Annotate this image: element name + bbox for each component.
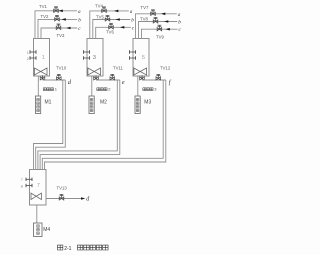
svg-text:7: 7 <box>37 183 40 189</box>
svg-text:b: b <box>78 17 81 23</box>
caption 图2-1 工艺流程图 <box>58 245 63 250</box>
svg-text:TV8: TV8 <box>140 16 148 21</box>
wire outlet run unit 3 <box>142 79 166 81</box>
svg-text:b: b <box>131 18 134 24</box>
valve TV12 <box>156 74 161 80</box>
svg-text:TV11: TV11 <box>113 66 124 71</box>
motor box unit 2 <box>89 96 94 114</box>
stirrer agitator tank 2 <box>88 68 101 75</box>
wire inlet pipe a unit 3 <box>136 14 177 39</box>
valve TV4 <box>102 7 107 13</box>
valve TV13 <box>59 195 64 201</box>
svg-text:a: a <box>178 12 181 18</box>
svg-text:TV9: TV9 <box>156 35 164 40</box>
tank 4 mix <box>30 170 47 206</box>
valve TV2 <box>55 15 60 21</box>
tank 1 <box>34 39 50 77</box>
wire drain pipe outer unit 2 <box>40 80 120 170</box>
wire outlet drop unit 2 <box>95 76 97 80</box>
svg-text:TV1: TV1 <box>39 4 47 9</box>
hand valve unit 1 <box>40 75 45 80</box>
wire outlet drop unit 3 <box>141 76 143 80</box>
svg-text:M3: M3 <box>144 99 151 105</box>
flow arrow into TV9 <box>166 28 170 31</box>
flow arrow into TV2 <box>62 18 66 21</box>
level sensor stub y52.0 tank 1 <box>30 51 36 53</box>
valve TV5 <box>105 16 110 22</box>
flow arrow into TV4 <box>114 10 118 13</box>
svg-text:TV6: TV6 <box>106 29 114 34</box>
svg-text:2-1: 2-1 <box>64 246 71 252</box>
svg-text:8: 8 <box>21 184 23 188</box>
wire inlet pipe a unit 1 <box>35 11 77 39</box>
valve TV3 <box>56 24 61 30</box>
valve TV6 <box>109 23 114 29</box>
motor box unit 4 <box>34 223 43 237</box>
motor box vertical text unit 4 <box>37 225 40 235</box>
valve TV1 <box>54 7 59 13</box>
wire motor shaft unit 3 <box>137 76 139 96</box>
valve TV8 <box>153 18 158 24</box>
wire inlet pipe c unit 1 <box>41 28 77 39</box>
wire outlet drop unit 1 <box>42 76 44 80</box>
label 电炉丝1 <box>43 88 53 91</box>
svg-text:7: 7 <box>21 178 23 182</box>
wire drain pipe inner unit 3 <box>42 80 163 170</box>
wire motor shaft unit 2 <box>91 76 93 96</box>
svg-text:1: 1 <box>42 55 45 61</box>
level sensor stub y179.3 tank 4 <box>26 178 32 180</box>
valve TV11 <box>110 74 115 80</box>
label 电炉丝3 <box>143 88 153 91</box>
svg-text:TV4: TV4 <box>95 3 103 8</box>
wire inlet pipe a unit 2 <box>90 11 129 39</box>
svg-text:TV12: TV12 <box>160 66 171 71</box>
flow arrow into TV8 <box>164 20 168 23</box>
valve TV9 <box>157 25 162 31</box>
wire inlet pipe b unit 1 <box>38 19 77 38</box>
label 电炉丝2 <box>97 88 107 91</box>
level sensor stub y58.0 tank 3 <box>130 57 136 59</box>
wire motor shaft unit 4 <box>36 205 38 223</box>
flow arrow into TV1 <box>59 10 63 13</box>
tank 2 <box>87 39 103 77</box>
svg-text:5: 5 <box>142 55 145 61</box>
level sensor stub y185.5 tank 4 <box>26 185 32 187</box>
level sensor stub y58.0 tank 2 <box>84 57 90 59</box>
tank 3 <box>133 39 149 77</box>
svg-text:b: b <box>178 20 181 26</box>
hand valve unit 3 <box>140 75 145 80</box>
svg-text:e: e <box>122 79 125 86</box>
svg-text:TV2: TV2 <box>41 14 49 19</box>
svg-text:3: 3 <box>93 55 96 61</box>
wire inlet pipe b unit 2 <box>93 20 130 39</box>
svg-text:a: a <box>130 9 133 15</box>
motor box vertical text unit 2 <box>90 98 93 111</box>
flow arrow into TV7 <box>161 13 165 16</box>
motor box unit 3 <box>135 96 140 114</box>
svg-text:TV5: TV5 <box>96 14 104 19</box>
wire outlet run unit 1 <box>43 79 66 81</box>
motor box vertical text unit 3 <box>136 98 139 111</box>
level sensor stub y52.0 tank 2 <box>84 51 90 53</box>
stirrer agitator tank 1 <box>34 68 47 75</box>
flow arrow into TV6 <box>120 26 124 29</box>
flow arrow out d <box>81 197 85 200</box>
svg-text:TV7: TV7 <box>141 5 149 10</box>
wire drain pipe outer unit 3 <box>45 80 166 170</box>
level sensor stub y58.0 tank 1 <box>30 57 36 59</box>
svg-text:TV13: TV13 <box>57 186 68 191</box>
svg-text:1: 1 <box>27 51 29 55</box>
svg-text:M4: M4 <box>43 227 50 233</box>
flow arrow into TV5 <box>116 18 120 21</box>
svg-text:a: a <box>78 9 81 15</box>
wire inlet pipe c unit 2 <box>96 27 131 38</box>
level sensor stub y52.0 tank 3 <box>130 51 136 53</box>
wire drain pipe inner unit 1 <box>34 80 63 170</box>
motor box vertical text unit 1 <box>37 98 40 111</box>
valve TV7 <box>151 10 156 16</box>
wire outlet run unit 2 <box>96 79 120 81</box>
wire outlet run tank 4 <box>46 198 82 200</box>
wire drain pipe outer unit 1 <box>36 80 66 170</box>
flow arrow into TV3 <box>66 27 70 30</box>
svg-text:M2: M2 <box>100 99 107 105</box>
wire drain pipe inner unit 2 <box>38 80 117 170</box>
svg-text:TV10: TV10 <box>56 66 67 71</box>
wire inlet pipe c unit 3 <box>142 29 178 38</box>
stirrer agitator tank 3 <box>134 68 147 75</box>
wire motor shaft unit 1 <box>37 76 39 96</box>
wire inlet pipe b unit 3 <box>139 22 178 39</box>
valve TV10 <box>57 74 62 80</box>
svg-text:TV3: TV3 <box>57 33 65 38</box>
motor box unit 1 <box>36 96 41 114</box>
svg-text:2: 2 <box>27 57 29 61</box>
stirrer agitator tank 4 <box>31 193 41 199</box>
svg-text:M1: M1 <box>45 99 52 105</box>
hand valve unit 2 <box>94 75 99 80</box>
